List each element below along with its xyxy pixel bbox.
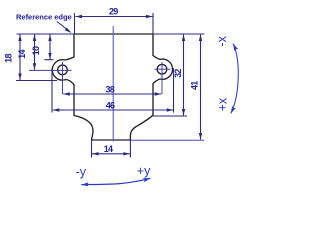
svg-text:46: 46: [106, 101, 115, 111]
svg-text:32: 32: [173, 69, 183, 78]
dimension bottom 14 line: [92, 153, 130, 155]
feature line 32 flange bottom: [153, 115, 187, 117]
dimension 18 line: [19, 35, 21, 81]
dimension 41 line: [200, 35, 202, 140]
reference edge leader arrowhead: [65, 28, 72, 33]
crosshair left hole vertical / ext for 38: [62, 62, 64, 94]
hole right: [157, 64, 167, 74]
crosshair left hole horizontal: [29, 69, 72, 71]
dimension 29 line: [76, 16, 153, 18]
dimension 38 line: [63, 93, 161, 95]
centerline vertical part axis: [112, 26, 114, 142]
axis curved arrow x: [231, 44, 239, 114]
dimension 10 line: [49, 35, 51, 60]
svg-text:10: 10: [31, 46, 41, 55]
svg-text:-y: -y: [76, 165, 87, 179]
reference edge leader: [57, 22, 69, 32]
svg-text:Reference edge: Reference edge: [16, 12, 72, 21]
crosshair right hole vertical / ext for 38: [161, 62, 163, 94]
axis curved arrow y: [81, 178, 150, 184]
extension line bottom 14 right: [129, 141, 131, 158]
svg-text:14: 14: [17, 50, 27, 59]
extension line 46 right: [173, 68, 175, 113]
feature line 41 stem bottom: [130, 139, 204, 141]
feature line 18 ear bottom: [16, 80, 57, 82]
extension line 46 left: [51, 68, 53, 113]
part outline: [52, 34, 172, 140]
crosshair right hole horizontal: [155, 68, 171, 70]
svg-text:29: 29: [109, 7, 118, 17]
dimension 32 line: [183, 35, 185, 116]
feature line 10 ear top: [44, 59, 53, 61]
svg-text:38: 38: [105, 85, 114, 95]
extension line 29 right: [152, 13, 154, 34]
extension line bottom 14 left: [91, 141, 93, 158]
svg-text:+x: +x: [215, 97, 229, 111]
top edge left extension line: [17, 33, 75, 35]
dimension 46 line: [53, 109, 173, 111]
svg-text:-x: -x: [215, 35, 229, 46]
svg-text:41: 41: [190, 81, 200, 90]
svg-text:14: 14: [104, 144, 113, 154]
extension line 29 left: [74, 13, 76, 34]
hole left: [58, 65, 68, 75]
svg-text:+y: +y: [137, 164, 151, 178]
dimension 14 line: [34, 35, 36, 70]
svg-text:18: 18: [4, 54, 14, 63]
top edge right extension line: [153, 33, 205, 35]
